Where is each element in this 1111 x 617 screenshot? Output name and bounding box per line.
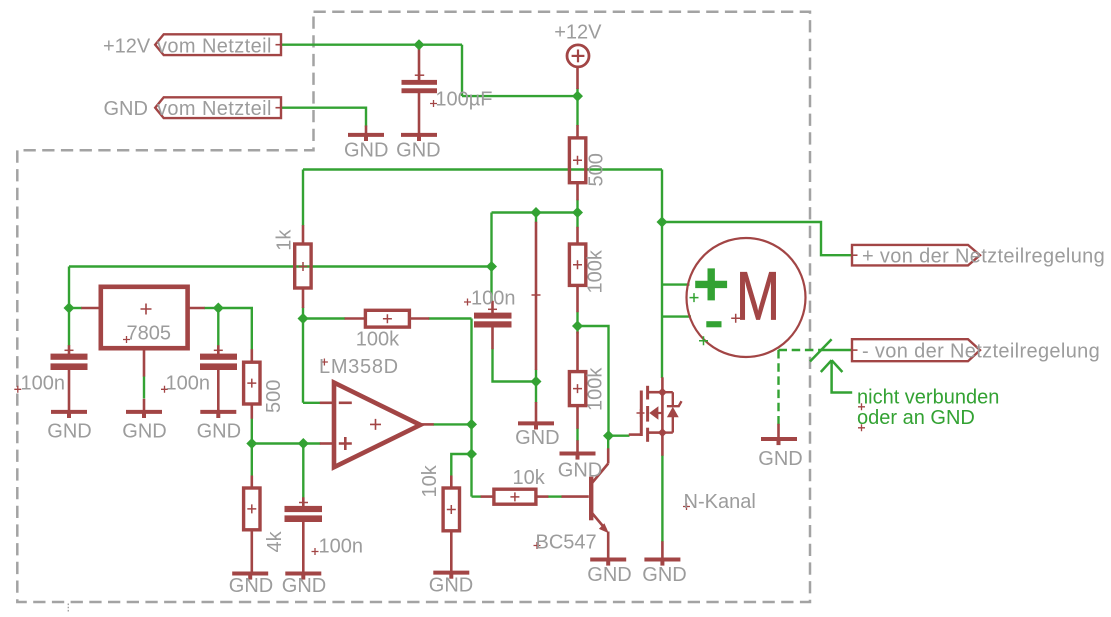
svg-text:BC547: BC547 <box>536 532 597 554</box>
pin BC547 emitter vertical <box>607 532 610 559</box>
pin R100kbot bottom lead <box>576 405 579 428</box>
gnd symbol mosfet <box>644 560 680 566</box>
gnd symbol C2 <box>200 412 236 418</box>
svg-text:GND: GND <box>104 98 148 120</box>
resistor 10k horizontal <box>494 489 536 504</box>
wire R10k vert top <box>451 454 471 476</box>
motor origin cross <box>731 314 740 323</box>
wire output to R10k horizontal <box>472 495 482 497</box>
wire solid into minus flag <box>826 349 852 351</box>
wire R500b to divider node <box>251 418 253 444</box>
wire mosfet drain up <box>661 170 663 379</box>
connector flag GND vom Netzteil <box>155 97 281 118</box>
connector flag +12V vom Netzteil <box>155 34 281 55</box>
wire dashed motor bottom vertical <box>777 350 779 425</box>
resistor 100k top <box>569 244 585 285</box>
svg-text:GND: GND <box>558 460 602 482</box>
wire feedback left <box>303 317 345 319</box>
pin cap mid bottom lead <box>491 327 494 349</box>
pin R100ktop top lead <box>576 227 579 244</box>
pin R500b top lead <box>251 349 254 362</box>
pin 7805 input lead <box>81 307 101 310</box>
wire R100k bottom stub <box>576 428 578 441</box>
mosfet source lead <box>649 431 662 434</box>
op-amp LM358D triangle <box>334 383 420 468</box>
wire node row y=212 <box>492 211 578 213</box>
svg-text:100µF: 100µF <box>435 89 492 111</box>
wire gate net from divider <box>578 326 630 436</box>
motor plus terminal symbol <box>695 268 727 300</box>
svg-text:500: 500 <box>263 380 285 413</box>
gnd symbol R10k vert <box>433 573 469 579</box>
frame corner dotted mark <box>67 604 69 612</box>
svg-text:LM358D: LM358D <box>319 356 399 378</box>
pin R100kbot gnd lead <box>576 440 579 452</box>
svg-text:GND: GND <box>282 575 326 597</box>
svg-text:100k: 100k <box>356 328 400 350</box>
transistor BC547 <box>589 464 608 530</box>
capacitor 100uF <box>402 80 438 93</box>
wire R100k mid node <box>576 312 578 334</box>
motor M1 circle <box>687 238 806 357</box>
svg-text:GND: GND <box>587 564 631 586</box>
capacitor C4 100n bottom <box>285 506 323 522</box>
pin cap bottom bottom lead <box>302 522 305 573</box>
resistor 100k bottom <box>569 372 585 406</box>
wire to right flag plus <box>662 222 852 255</box>
pin R4k top lead <box>251 476 254 489</box>
svg-text:100k: 100k <box>585 249 607 293</box>
wire cap mid bottom to ic power node <box>493 349 537 382</box>
svg-text:vom Netzteil: vom Netzteil <box>157 35 272 57</box>
mosfet body vertical <box>661 392 664 432</box>
text green annotation <box>857 386 999 429</box>
svg-text:10k: 10k <box>419 464 441 497</box>
svg-text:GND: GND <box>47 420 91 442</box>
gnd symbol C4 <box>285 574 321 580</box>
pin R500b bottom lead <box>251 404 254 419</box>
wire to R500b <box>218 308 252 350</box>
svg-text:oder an GND: oder an GND <box>857 407 975 429</box>
pin supply lead <box>576 67 579 89</box>
wire 7805 output stub <box>204 307 218 309</box>
flag pin ticks right <box>852 255 858 350</box>
mosfet body diode branch <box>662 392 681 432</box>
gnd symbol R100k bottom <box>560 454 596 460</box>
pin motor bottom gnd lead <box>777 424 780 438</box>
pin R1k bottom lead <box>302 288 305 308</box>
pin R100kbot top lead <box>576 332 579 372</box>
pin R10kvert top lead <box>450 476 453 489</box>
svg-text:vom Netzteil: vom Netzteil <box>157 98 272 120</box>
gnd symbol BC547 <box>590 560 626 566</box>
pin 7805 gnd lead <box>143 348 146 376</box>
pin BC547 base lead <box>562 495 589 498</box>
motor minus terminal symbol <box>706 321 721 327</box>
supply symbol +12V <box>567 45 589 67</box>
pin cap100uF top lead <box>418 46 421 81</box>
pin cap100uF bottom lead <box>418 93 421 134</box>
wire divider node down to R4k <box>251 444 253 477</box>
svg-text:+ von der Netzteilregelung: + von der Netzteilregelung <box>862 246 1105 268</box>
pin opamp minus lead <box>320 401 334 404</box>
wire inverting input stub <box>303 402 321 404</box>
wire left column x=491 down to cap <box>490 213 492 302</box>
wire output column <box>470 319 472 497</box>
wire op-amp output <box>433 423 472 425</box>
svg-text:500: 500 <box>586 153 608 186</box>
wire R500 bottom to node <box>576 200 578 213</box>
svg-text:100n: 100n <box>21 373 66 395</box>
gnd symbol flag2 <box>348 135 384 141</box>
pin R10khoriz left lead <box>481 495 494 498</box>
pin mosfet drain red <box>661 377 664 392</box>
capacitor C2 100n right <box>200 354 237 370</box>
resistor 500 bottom <box>244 362 260 404</box>
svg-text:GND: GND <box>197 420 241 442</box>
flag pin ticks left <box>276 45 282 108</box>
wire plus node down to cap <box>302 444 304 499</box>
mosfet N-channel <box>629 386 663 442</box>
annotation arrow <box>821 360 852 392</box>
svg-text:+12V: +12V <box>554 21 602 43</box>
pin cap left leads <box>68 345 71 354</box>
connector flag - von der Netzteilregelung <box>852 339 980 361</box>
wire feedback right <box>429 317 472 319</box>
no-connect slash <box>810 339 832 361</box>
wire divider node to op-amp plus <box>252 442 321 444</box>
regulator 7805 origin cross <box>141 304 152 315</box>
gnd symbol 100uF <box>401 135 437 141</box>
wire long mid horizontal net y=266 <box>69 265 492 267</box>
pin opamp plus lead <box>320 442 334 445</box>
wire +12V net from flag to junction <box>281 44 462 46</box>
transistor BC547 emitter arrow <box>599 523 609 533</box>
wire icp top stub <box>535 213 537 223</box>
svg-text:GND: GND <box>758 448 802 470</box>
capacitor C3 100n middle <box>474 313 512 328</box>
wire motor minus lead <box>662 315 691 317</box>
junction dots green <box>64 39 668 459</box>
wire long horizontal upper net <box>303 168 662 170</box>
svg-text:+12V: +12V <box>103 35 151 57</box>
regulator 7805 <box>101 287 188 348</box>
pin gnd flag2 lead <box>365 126 368 134</box>
svg-text:100n: 100n <box>319 536 364 558</box>
mosfet gate lead <box>629 433 640 436</box>
op-amp origin cross <box>370 419 381 430</box>
svg-text:10k: 10k <box>513 467 546 489</box>
wire R7805 gnd pin mid <box>143 376 145 399</box>
resistor origin crosses <box>247 156 582 514</box>
pin R10khoriz right lead <box>536 495 549 498</box>
mosfet gate origin cross <box>637 409 645 417</box>
capacitor 100uF polarity mark <box>415 71 424 80</box>
wire BC547 base <box>548 495 563 497</box>
wire 7805 input stub <box>69 307 82 309</box>
pin R10kvert bottom lead <box>450 531 453 571</box>
wire R100k top stub <box>576 213 578 228</box>
pin R1k top lead <box>302 225 305 244</box>
pin cap right leads <box>217 345 220 354</box>
svg-text:GND: GND <box>344 139 388 161</box>
pin BC547 collector vertical <box>607 448 610 463</box>
resistor 4k <box>244 488 260 530</box>
wire +12V net vertical <box>461 45 463 96</box>
svg-text:1k: 1k <box>273 229 295 251</box>
svg-text:N-Kanal: N-Kanal <box>684 491 756 513</box>
svg-text:GND: GND <box>396 139 440 161</box>
wire left drop to 7805 input <box>68 267 70 346</box>
wire dashed motor bottom horizontal <box>779 349 827 351</box>
wire supply to R500 <box>576 88 578 126</box>
wire 7805 output down to cap <box>217 308 219 346</box>
wire motor plus lead <box>662 283 690 285</box>
frame dashed border <box>17 12 810 602</box>
svg-text:GND: GND <box>515 427 559 449</box>
pin icp gnd lead <box>535 402 538 422</box>
connector flag + von der Netzteilregelung <box>852 245 980 266</box>
svg-text:nicht verbunden: nicht verbunden <box>857 386 999 408</box>
mosfet pin junction dots red <box>658 388 667 437</box>
wire inverting input column <box>302 307 304 403</box>
gnd symbol motor <box>761 439 797 445</box>
label origin crosses <box>14 100 865 555</box>
svg-text:100n: 100n <box>166 373 211 395</box>
svg-text:M: M <box>736 257 780 334</box>
op-amp plus marker <box>339 437 352 450</box>
mosfet channel segments <box>646 386 649 400</box>
pin icp vertical <box>535 222 538 370</box>
wire icp mid segments <box>535 369 537 402</box>
wire +12V net to supply junction <box>462 95 578 97</box>
pin R500top bottom lead <box>576 183 579 201</box>
wire BC547 collector <box>607 436 609 449</box>
mosfet bulk arrow line <box>658 412 663 414</box>
capacitor C1 100n left <box>51 354 88 370</box>
pin cap mid top lead <box>491 301 494 313</box>
pin R500top top lead <box>576 125 579 139</box>
svg-text:GND: GND <box>642 564 686 586</box>
wire GND flag net <box>281 108 366 127</box>
svg-text:GND: GND <box>229 575 273 597</box>
motor pin cross plus <box>690 293 699 302</box>
svg-text:GND: GND <box>122 420 166 442</box>
gnd symbol C1 <box>51 412 87 418</box>
svg-text:7805: 7805 <box>127 323 172 345</box>
capacitor origin ticks <box>65 309 498 502</box>
gnd symbol icp <box>518 423 554 429</box>
gnd symbol R4k <box>232 574 268 580</box>
resistor 1k <box>295 244 311 288</box>
resistor 500 top <box>569 138 585 183</box>
pin mosfet source gnd lead <box>661 541 664 558</box>
pin R100kfb right lead <box>409 317 429 320</box>
svg-text:100n: 100n <box>471 287 516 309</box>
svg-text:- von der Netzteilregelung: - von der Netzteilregelung <box>862 340 1100 362</box>
pin 7805 output lead <box>188 307 205 310</box>
mosfet bulk arrow head <box>649 406 658 420</box>
svg-text:100k: 100k <box>585 367 607 411</box>
pin 7805 gnd symbol lead <box>143 399 146 411</box>
pin cap bottom top lead <box>302 497 305 506</box>
op-amp minus marker <box>339 401 352 404</box>
svg-text:GND: GND <box>429 575 473 597</box>
ic power origin cross <box>532 291 541 300</box>
gnd symbol 7805 <box>126 412 162 418</box>
pin R4k bottom lead <box>251 529 254 572</box>
wire mosfet source <box>661 455 663 542</box>
mosfet body diode triangle <box>667 407 679 418</box>
resistor 10k vertical <box>443 488 459 531</box>
pin R100kfb left lead <box>345 317 366 320</box>
mosfet body diode zener bar <box>667 401 682 406</box>
mosfet gate bar <box>640 391 643 437</box>
pin R100ktop bottom lead <box>576 285 579 312</box>
pin opamp out lead <box>420 423 433 426</box>
motor pin cross minus <box>699 336 708 345</box>
mosfet drain lead <box>649 391 662 394</box>
svg-text:4k: 4k <box>264 530 286 552</box>
resistor 100k feedback horizontal <box>365 310 409 327</box>
wire to R 1k top <box>302 170 304 227</box>
pin mosfet source red <box>661 433 664 456</box>
